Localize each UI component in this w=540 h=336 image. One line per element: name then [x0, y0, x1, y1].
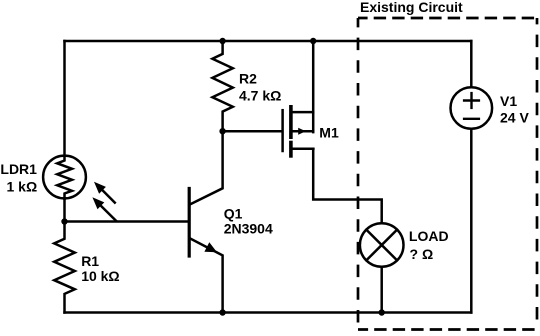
- label R1 value: [81, 253, 119, 284]
- svg-text:? Ω: ? Ω: [410, 246, 434, 262]
- mosfet M1: [283, 107, 314, 156]
- node R2 top junction dot: [219, 38, 225, 44]
- svg-text:LDR1: LDR1: [0, 161, 37, 177]
- node emitter bottom junction dot: [219, 309, 225, 315]
- svg-text:M1: M1: [319, 125, 339, 141]
- svg-text:R2: R2: [239, 71, 257, 87]
- LDR1 light arrow lower: [92, 197, 116, 220]
- svg-text:Existing Circuit: Existing Circuit: [360, 0, 463, 15]
- node R2 bottom junction dot: [219, 128, 225, 134]
- lamp LOAD: [360, 223, 404, 267]
- photoresistor LDR1: [43, 156, 86, 199]
- label M1: [319, 125, 339, 141]
- wire V1 top (top rail to V1): [470, 41, 473, 87]
- wire left rail upper: [63, 41, 66, 155]
- wire base (node A to Q1 base): [65, 220, 189, 223]
- svg-text:Q1: Q1: [224, 205, 243, 221]
- transistor Q1: [189, 131, 222, 312]
- svg-text:1 kΩ: 1 kΩ: [7, 179, 38, 195]
- wire LDR1 to node A: [63, 198, 66, 221]
- svg-text:R1: R1: [81, 253, 99, 269]
- label LOAD value: [409, 228, 449, 262]
- wire source (M1 to LOAD): [313, 149, 382, 223]
- LDR1 light arrow upper: [94, 182, 115, 203]
- label Q1 value: [224, 205, 273, 236]
- svg-text:4.7 kΩ: 4.7 kΩ: [239, 88, 281, 104]
- voltage source V1: [451, 87, 493, 129]
- wire V1 bottom (V1 to bottom rail): [470, 129, 473, 313]
- label LDR1 value: [0, 161, 37, 195]
- node drain junction dot: [310, 38, 316, 44]
- wire gate (R2 bottom to M1 gate): [223, 130, 282, 133]
- svg-text:V1: V1: [500, 93, 517, 109]
- svg-text:2N3904: 2N3904: [224, 220, 273, 236]
- node A junction dot: [61, 218, 67, 224]
- svg-text:LOAD: LOAD: [409, 228, 449, 244]
- svg-text:24 V: 24 V: [500, 109, 529, 125]
- resistor R1: [54, 222, 75, 313]
- wire bottom rail: [65, 311, 472, 314]
- resistor R2: [212, 41, 232, 131]
- wire top rail: [65, 40, 472, 43]
- wire drain (top rail to M1): [312, 41, 315, 132]
- dashed boundary existing circuit box: [358, 18, 540, 330]
- label R2 value: [239, 71, 281, 104]
- label Existing Circuit: [360, 0, 463, 15]
- label V1 value: [500, 93, 529, 125]
- wire LOAD to bottom rail: [380, 267, 383, 313]
- node LOAD bottom junction dot: [379, 309, 385, 315]
- svg-text:10 kΩ: 10 kΩ: [81, 268, 119, 284]
